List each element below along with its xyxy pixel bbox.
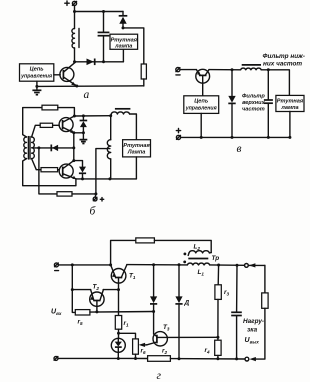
wire coil to lamp xyxy=(261,70,289,96)
svg-text:зка: зка xyxy=(247,327,258,334)
resistor Rb2 (upper base) xyxy=(40,123,52,127)
resistor R1 (right branch) xyxy=(141,64,146,79)
wire lower base branch xyxy=(32,159,41,170)
transistor VT1 (circuit a) xyxy=(60,62,77,86)
node: zener on rail xyxy=(117,357,120,360)
node: lower collector junction xyxy=(72,159,75,162)
diode VD6 (lower, pointing down) xyxy=(74,161,86,179)
svg-text:r3: r3 xyxy=(224,289,230,297)
wire T3 collector to r3-r4 junction xyxy=(167,336,217,338)
node: control box on rail xyxy=(200,136,203,139)
svg-text:лампа: лампа xyxy=(114,43,132,49)
wire from terminal to top rail xyxy=(74,6,76,12)
svg-text:r4: r4 xyxy=(205,347,211,355)
wire bottom rail right xyxy=(170,358,244,360)
wire left input down to r5 xyxy=(72,290,75,313)
wire capacitor branch upper xyxy=(103,12,105,33)
resistor r4 xyxy=(215,340,221,355)
node: upper collector junction xyxy=(73,115,76,118)
node: secondary bottom on bus xyxy=(108,177,111,180)
label low-pass filter xyxy=(263,53,305,67)
svg-text:г: г xyxy=(157,370,162,382)
svg-text:частот: частот xyxy=(242,106,265,112)
wire input top rail xyxy=(58,264,110,266)
node: r3 branch junction xyxy=(217,264,220,267)
node: capacitor branch junction xyxy=(102,10,105,13)
svg-text:Нагру-: Нагру- xyxy=(243,318,264,325)
svg-text:Тр: Тр xyxy=(212,255,220,262)
diode VD8 D (pointing down) xyxy=(175,265,182,359)
node: lamp on rail xyxy=(288,136,291,139)
svg-text:управления: управления xyxy=(20,73,53,79)
svg-text:верхних: верхних xyxy=(242,100,266,106)
wire mid horizontal xyxy=(75,61,124,63)
wire secondary vertical upper xyxy=(110,116,112,140)
box control circuit (circuit v) xyxy=(184,96,219,114)
svg-text:Т1: Т1 xyxy=(129,272,136,280)
wire lamp to bus xyxy=(135,157,137,179)
resistor r6 xyxy=(133,339,139,354)
zener diode VD9 xyxy=(111,338,125,358)
resistor Rg (top) xyxy=(136,238,155,243)
resistor r3 xyxy=(215,285,221,300)
wire secondary vertical lower xyxy=(110,159,112,179)
wire r3 branch upper xyxy=(217,265,219,285)
diode VD7 (left, pointing down) xyxy=(150,265,157,312)
diode VD4 (upper, pointing up) xyxy=(80,116,88,133)
node: upper diode bottom xyxy=(82,131,85,134)
wire mid rail left xyxy=(127,264,187,266)
wire output tap xyxy=(96,149,110,194)
node: capacitor branch junction xyxy=(267,68,270,71)
node: emitter junction on rail xyxy=(75,85,78,88)
node: T1 base junction xyxy=(117,288,120,291)
svg-text:Д: Д xyxy=(184,300,190,307)
svg-text:r6: r6 xyxy=(141,348,147,356)
node: capacitor bottom junction xyxy=(102,60,105,63)
transformer core Tr xyxy=(188,258,208,260)
transistor T3 xyxy=(139,312,168,348)
wire input tap down xyxy=(39,148,57,194)
terminal input bottom (circuit g) xyxy=(54,356,58,360)
wire outer loop top xyxy=(23,108,42,137)
node: upper emitter junction xyxy=(72,131,75,134)
capacitor C (output) xyxy=(231,265,242,359)
node: D diode junction xyxy=(178,263,181,266)
svg-text:L2: L2 xyxy=(194,244,201,252)
wire base xyxy=(54,74,60,76)
ground (circuit b) xyxy=(80,133,88,144)
output transformer Tr2 core xyxy=(115,108,130,110)
node: diode branch junction xyxy=(231,68,234,71)
node: T1 junction xyxy=(109,263,112,266)
wire upper collector bus xyxy=(74,115,110,117)
wire emitter to diode bottom xyxy=(74,132,84,134)
wire diode junction to right branch xyxy=(123,28,144,64)
svg-text:Т2: Т2 xyxy=(93,284,100,292)
wire r6 branch xyxy=(119,333,136,339)
node: T3 base junction xyxy=(152,310,155,313)
node: r6 on rail xyxy=(134,357,137,360)
svg-text:Фильтр: Фильтр xyxy=(242,93,265,99)
node: D diode on rail xyxy=(178,357,181,360)
wire load branch down xyxy=(264,265,266,293)
wire bottom rail left xyxy=(58,357,148,359)
svg-text:б: б xyxy=(90,206,97,218)
inductor L1 (on mid wire) xyxy=(187,263,209,265)
node: terminal junction xyxy=(94,192,97,195)
wire resistor to collector branch xyxy=(58,108,75,116)
terminal -input (circuit g) xyxy=(54,263,58,271)
terminal +supply (circuit a) xyxy=(65,1,77,6)
terminal +supply (circuit b) xyxy=(93,194,104,201)
wire resistor to bottom rail xyxy=(143,79,145,86)
label load Uvyx xyxy=(243,318,264,345)
wire bottom rail (circuit a) xyxy=(37,85,144,88)
diode VD2 (horizontal, pointing right) xyxy=(87,59,95,66)
node: T2 emitter junction xyxy=(95,310,98,313)
resistor r1 xyxy=(115,316,121,330)
resistor Rb1 (top) xyxy=(42,105,58,110)
inductor L2 (feedback winding) xyxy=(188,251,211,256)
wire primary right to lamp xyxy=(130,114,137,140)
wire lamp box stub xyxy=(122,49,124,62)
svg-text:Цепь: Цепь xyxy=(194,99,208,105)
svg-text:них частот: них частот xyxy=(263,60,302,67)
secondary winding (circuit b) xyxy=(107,140,110,159)
diode VD3 (circuit v, pointing down) xyxy=(228,70,235,138)
wire to upper base xyxy=(53,124,60,126)
diode VD1 (vertical, pointing up) xyxy=(119,12,128,28)
wire r1 to zener xyxy=(118,329,120,338)
svg-text:Лампа: Лампа xyxy=(127,150,146,156)
wire r3 to r4 xyxy=(217,299,219,340)
wire lamp to rail xyxy=(289,112,291,138)
wire top feedback branch xyxy=(111,240,136,265)
resistor Rb4 (bottom) xyxy=(57,192,72,196)
transistor VT4 (lower) xyxy=(59,161,76,180)
wire center-tap horizontal xyxy=(33,147,73,149)
wire load branch bottom xyxy=(256,308,265,359)
node: r4 on rail xyxy=(216,357,219,360)
svg-text:Uвх: Uвх xyxy=(51,309,62,317)
svg-text:Цепь: Цепь xyxy=(30,67,44,73)
svg-text:r1: r1 xyxy=(124,320,130,328)
svg-text:Т3: Т3 xyxy=(163,324,170,332)
wire rail to coil xyxy=(209,69,241,71)
node: capacitor branch junction xyxy=(236,264,239,267)
resistor Rb3 (lower base) xyxy=(41,168,58,172)
node: left branch junction xyxy=(71,263,74,266)
box mercury lamp (circuit v) xyxy=(276,95,304,111)
wire midpoint vertical xyxy=(73,133,75,161)
terminal output top (open) xyxy=(245,264,249,268)
wire to lower base xyxy=(58,169,60,171)
node: upper diode hang xyxy=(82,114,85,117)
resistor load xyxy=(262,293,268,308)
node: primary left end xyxy=(109,114,112,117)
node: r6 branch junction xyxy=(117,332,120,335)
svg-text:L1: L1 xyxy=(198,269,205,277)
resistor r5 xyxy=(75,310,90,315)
svg-text:Ртутная: Ртутная xyxy=(123,143,150,149)
terminal -supply (circuit v) xyxy=(176,68,180,75)
inductor L2 with core (circuit v) xyxy=(241,65,262,70)
output transformer primary coil xyxy=(111,112,129,114)
svg-text:Uвых: Uвых xyxy=(245,337,260,345)
node: input tap junction xyxy=(37,146,40,149)
wire primary left end xyxy=(110,114,113,116)
terminal +supply (circuit v) xyxy=(176,129,180,140)
transistor VT3 (upper) xyxy=(59,116,74,133)
wire bottom rail (circuit v) xyxy=(181,136,290,138)
transistor VT2 (circuit v) xyxy=(196,69,210,95)
node: T3 collector junction xyxy=(216,336,219,339)
box mercury lamp (circuit b) xyxy=(123,140,151,157)
svg-text:r2: r2 xyxy=(162,348,168,356)
svg-text:а: а xyxy=(84,89,90,101)
transistor T1 xyxy=(111,265,127,290)
box mercury lamp (circuit a) xyxy=(110,34,138,49)
svg-text:Фильтр ниж-: Фильтр ниж- xyxy=(263,53,305,60)
box control circuit (circuit a) xyxy=(20,64,54,81)
inductor L1 with core xyxy=(72,12,79,62)
terminal output bottom (open) xyxy=(245,357,249,361)
wire r6 to rail xyxy=(135,354,137,358)
node: L2 phase dot xyxy=(184,253,187,256)
arrow to load bottom xyxy=(249,357,256,361)
wire bottom resistor to terminal junction xyxy=(72,193,96,195)
wire upper base branch xyxy=(32,125,41,137)
wire top rail xyxy=(75,11,124,13)
wire capacitor branch lower xyxy=(103,36,105,62)
resistor r2 (on rail) xyxy=(148,356,171,362)
label high-pass filter xyxy=(242,93,266,112)
node: tap wire junction xyxy=(72,146,75,149)
capacitor C1 xyxy=(98,32,110,35)
wire r4 to rail xyxy=(217,355,219,358)
wire mid rail right xyxy=(210,264,245,266)
node: lower diode on bus xyxy=(81,177,84,180)
node: diode bottom junction xyxy=(122,26,125,29)
capacitor C2 (circuit v) xyxy=(264,70,273,138)
wire outer loop bottom xyxy=(23,159,76,186)
transistor T2 xyxy=(71,265,119,312)
input transformer Tr1 xyxy=(24,137,35,159)
wire control box to rail xyxy=(200,113,202,137)
wire top resistor to L2 xyxy=(154,240,211,252)
svg-text:в: в xyxy=(237,143,242,155)
svg-text:r5: r5 xyxy=(78,319,84,327)
node: L1 phase dot xyxy=(183,261,186,264)
ground (circuit a) xyxy=(32,81,41,95)
diode VD5 (middle, pointing left) xyxy=(51,145,58,152)
svg-text:Ртутная: Ртутная xyxy=(277,98,304,104)
wire to load top with arrow xyxy=(249,263,265,267)
node: capacitor on rail xyxy=(267,136,270,139)
wire r1 branch xyxy=(118,290,120,316)
wire emitter rail xyxy=(90,311,154,314)
wire emitter bus xyxy=(76,178,136,180)
svg-text:управления: управления xyxy=(185,106,218,112)
node: left diode hang xyxy=(152,263,155,266)
wire terminal to transistor xyxy=(180,69,196,71)
svg-text:лампа: лампа xyxy=(280,105,298,111)
node: diode on rail xyxy=(231,136,234,139)
node: capacitor on rail xyxy=(235,357,238,360)
node: top rail left junction xyxy=(73,10,76,13)
node: coil-collector junction xyxy=(73,60,76,63)
